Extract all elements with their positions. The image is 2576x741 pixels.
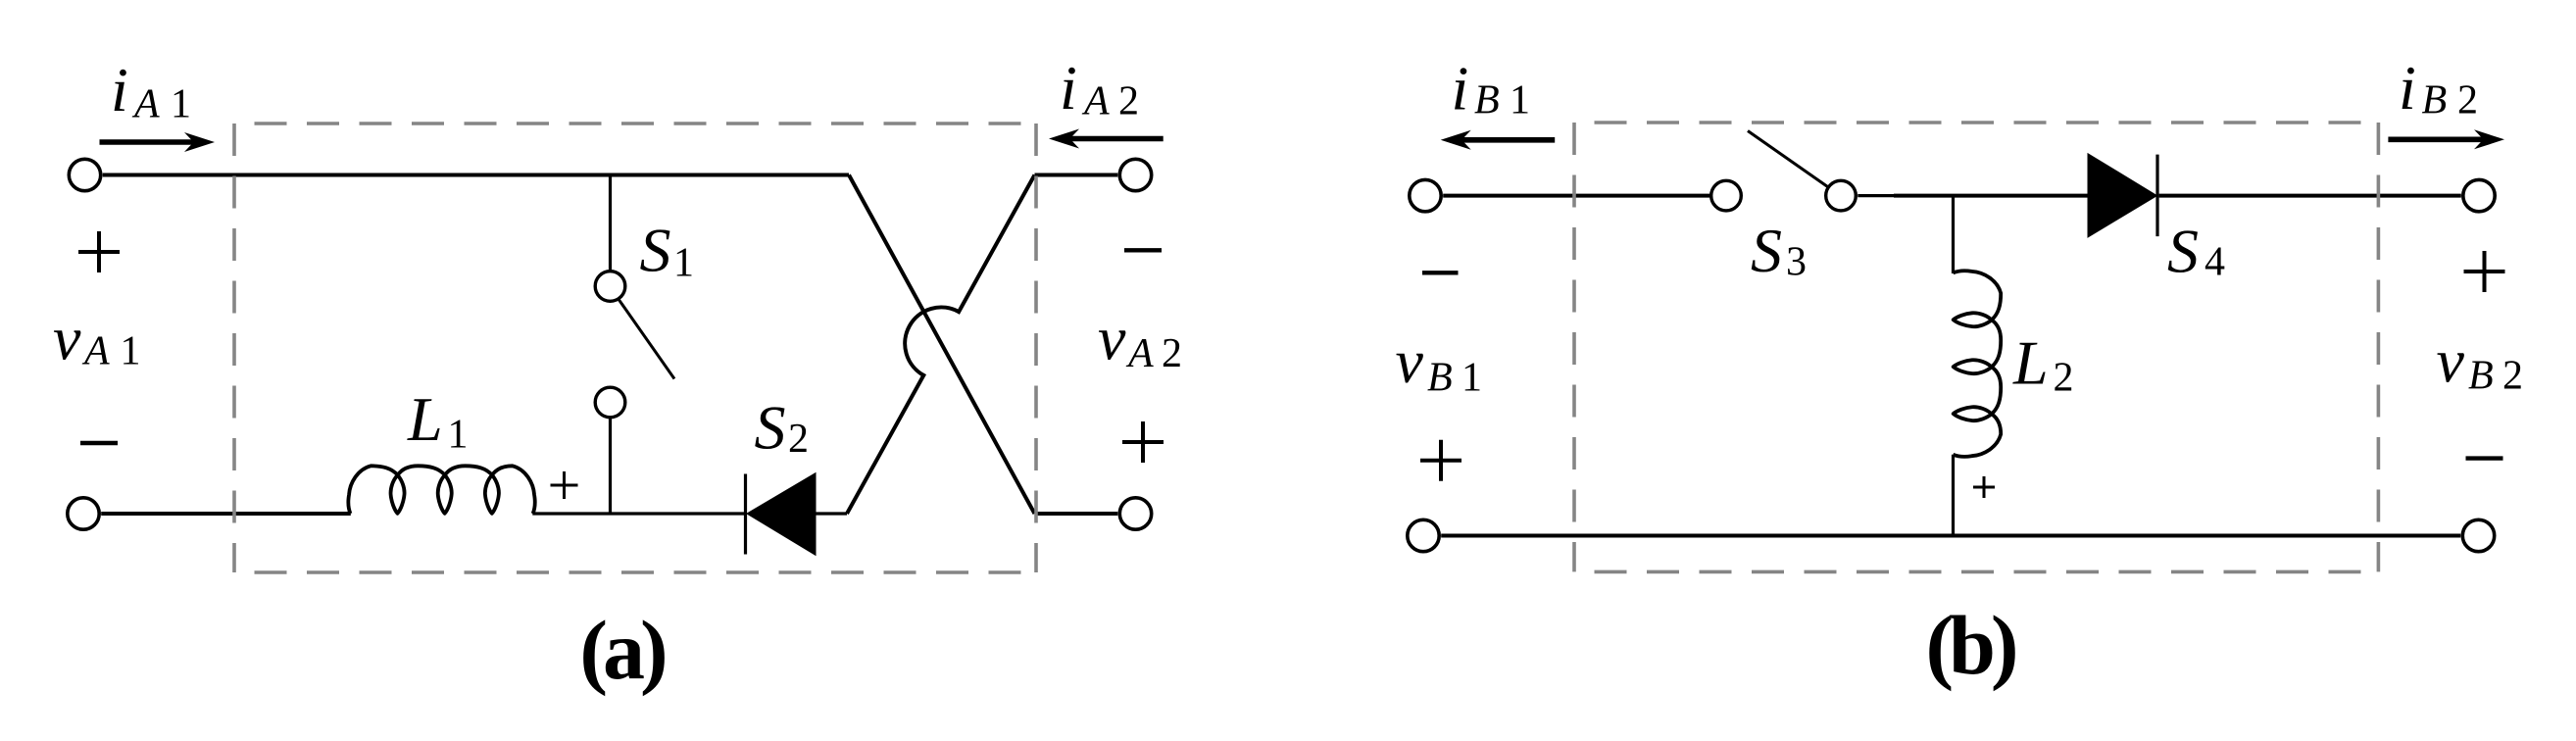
svg-text:2: 2 xyxy=(788,417,809,462)
arrow i_A2 (into port A2) xyxy=(1049,129,1164,149)
label v_A1 xyxy=(53,303,141,373)
switch S3 blade xyxy=(1748,131,1828,187)
svg-text:i: i xyxy=(1452,54,1469,123)
label v_A2 xyxy=(1098,304,1182,376)
label i_B2 xyxy=(2399,53,2478,123)
wire: A2 bottom stub xyxy=(1035,512,1118,516)
terminal: port B1 bottom xyxy=(1408,519,1439,551)
svg-text:2: 2 xyxy=(2502,354,2523,399)
label S3 xyxy=(1751,216,1807,285)
arrow i_B2 (out of port B2) xyxy=(2388,129,2504,149)
label L2 xyxy=(2012,328,2074,401)
svg-text:S: S xyxy=(640,216,671,285)
switch S1 stem (top) xyxy=(609,175,612,272)
label S1 xyxy=(640,216,695,286)
svg-text:A: A xyxy=(1081,79,1110,124)
dashed boundary box A xyxy=(234,123,1036,572)
terminal: port A1 bottom xyxy=(68,498,99,529)
wire: L2 stem (top) xyxy=(1952,196,1955,273)
switch S3 left contact xyxy=(1711,180,1742,211)
svg-text:3: 3 xyxy=(1786,240,1807,285)
svg-text:v: v xyxy=(53,303,81,372)
label i_A2 xyxy=(1060,53,1139,124)
terminal: port A1 top xyxy=(69,159,100,190)
svg-text:A: A xyxy=(1125,331,1154,376)
minus sign (v_B1 -) xyxy=(1422,271,1459,274)
wire: B1 top stub to S3 xyxy=(1443,194,1711,198)
svg-text:1: 1 xyxy=(673,241,694,286)
wire: A bottom rail (port to L1) xyxy=(101,512,351,516)
diode S4 cathode bar xyxy=(2155,155,2158,237)
wire: L1 to S2 anode xyxy=(532,512,745,515)
plus sign (v_B1 +) xyxy=(1420,440,1461,481)
svg-text:1: 1 xyxy=(1510,78,1530,123)
arrow i_B1 (out of port B1) xyxy=(1441,130,1556,150)
svg-text:L: L xyxy=(2012,328,2049,398)
wire: S3 lead (right contact) xyxy=(1858,194,1894,197)
svg-text:2: 2 xyxy=(2054,356,2074,401)
wire: A2 top stub xyxy=(1035,173,1118,177)
svg-text:2: 2 xyxy=(1162,331,1182,376)
minus sign (v_A2 -) xyxy=(1124,248,1162,252)
plus sign (v_A1 +) xyxy=(78,231,120,272)
label i_A1 xyxy=(111,55,191,127)
dashed boundary box B xyxy=(1574,123,2378,571)
switch S3 right contact xyxy=(1826,180,1857,211)
svg-text:A: A xyxy=(131,82,160,127)
svg-text:i: i xyxy=(111,55,128,124)
plus sign (v_B2 +) xyxy=(2464,251,2505,292)
switch S1 blade xyxy=(619,299,675,379)
svg-text:L: L xyxy=(407,384,443,454)
diode S4 triangle xyxy=(2089,155,2156,237)
svg-text:S: S xyxy=(2167,217,2199,286)
terminal: port B2 top xyxy=(2463,179,2495,211)
switch S1 stem (bottom) xyxy=(609,419,612,515)
svg-text:1: 1 xyxy=(1461,356,1482,401)
wire: falling diagonal (top-left to bottom-right) xyxy=(849,175,1035,515)
label S4 xyxy=(2167,217,2225,286)
svg-text:B: B xyxy=(2468,354,2494,399)
label S2 xyxy=(755,393,810,463)
svg-text:i: i xyxy=(1060,53,1077,123)
svg-text:1: 1 xyxy=(448,413,469,458)
wire: S3 to S4 anode xyxy=(1894,194,2089,198)
svg-text:1: 1 xyxy=(171,82,191,127)
svg-text:2: 2 xyxy=(1118,79,1139,124)
label L1 xyxy=(407,384,469,458)
arrow i_A1 (into port A1) xyxy=(100,132,216,152)
plus sign (v_A2 +) xyxy=(1122,421,1164,463)
svg-text:A: A xyxy=(81,329,110,374)
minus sign (v_B2 -) xyxy=(2466,456,2503,460)
wire: S4 to port B2 xyxy=(2159,194,2461,198)
label + (L1 output node) xyxy=(551,471,578,499)
terminal: port A2 top xyxy=(1119,159,1151,190)
svg-text:v: v xyxy=(1098,304,1126,373)
diode S2 cathode bar xyxy=(744,474,747,555)
minus sign (v_A1 -) xyxy=(80,441,118,445)
svg-text:1: 1 xyxy=(121,329,141,374)
svg-text:i: i xyxy=(2399,53,2416,123)
terminal: port A2 bottom xyxy=(1119,498,1151,529)
switch S1 bottom contact xyxy=(595,387,625,418)
wire: S2 to crossing corner xyxy=(816,512,848,515)
label i_B1 xyxy=(1452,54,1531,123)
svg-text:(b): (b) xyxy=(1925,598,2014,692)
wire: L2 stem (bottom) xyxy=(1952,455,1955,536)
wire: B bottom rail xyxy=(1441,534,2460,538)
svg-text:B: B xyxy=(1474,78,1500,123)
svg-text:B: B xyxy=(2422,78,2448,123)
switch S1 top contact xyxy=(595,272,625,302)
label v_B2 xyxy=(2437,325,2524,398)
terminal: port B1 top xyxy=(1410,179,1441,211)
svg-text:B: B xyxy=(1427,356,1453,401)
svg-text:v: v xyxy=(1396,326,1424,396)
svg-text:4: 4 xyxy=(2204,240,2225,285)
svg-text:S: S xyxy=(755,393,786,463)
svg-text:S: S xyxy=(1751,216,1782,285)
svg-text:v: v xyxy=(2437,325,2465,395)
diode S2 triangle xyxy=(748,474,816,555)
wire: rising diagonal with hop over crossing xyxy=(847,175,1035,515)
svg-text:2: 2 xyxy=(2457,78,2478,123)
inductor L2 xyxy=(1954,271,2002,456)
svg-text:(a): (a) xyxy=(579,603,665,697)
label v_B1 xyxy=(1396,326,1483,401)
wire: A top rail xyxy=(103,173,849,177)
label + (L2 bottom node) xyxy=(1973,476,1995,498)
terminal: port B2 bottom xyxy=(2462,519,2494,551)
inductor L1 xyxy=(348,466,534,514)
